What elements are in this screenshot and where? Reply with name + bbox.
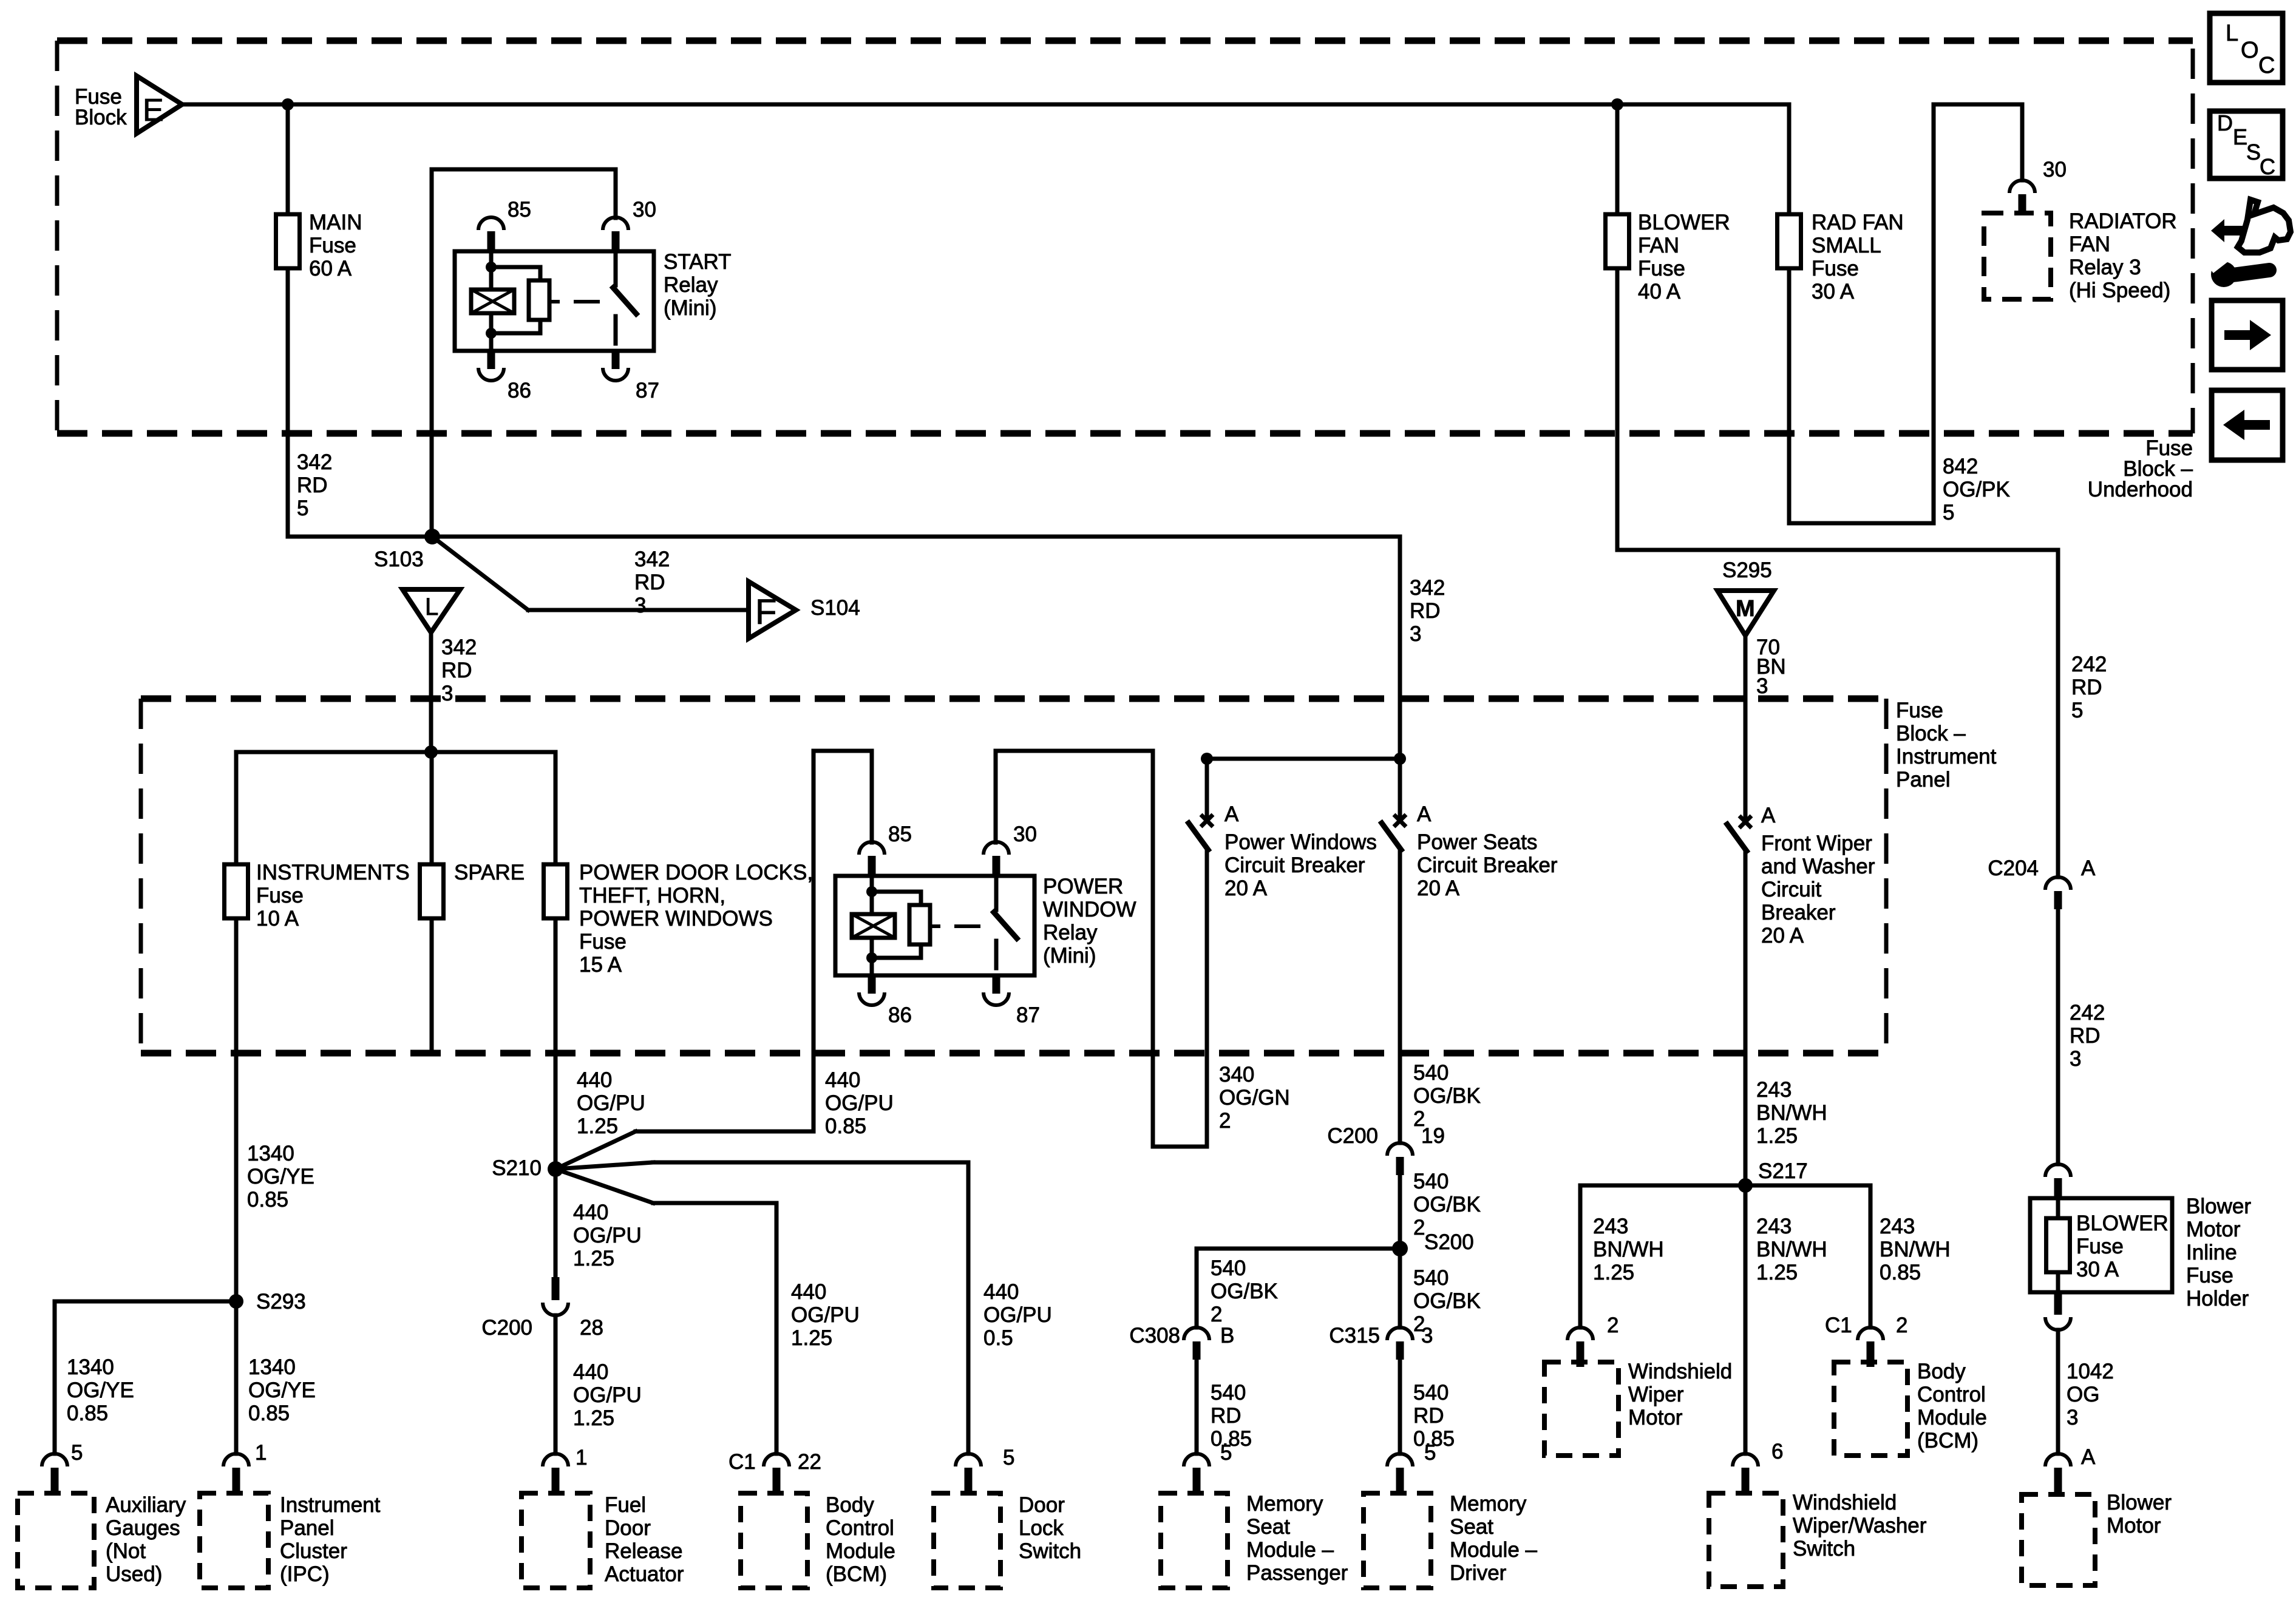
wire relay2 pin30 jog to breaker loop — [994, 751, 998, 842]
svg-text:85: 85 — [508, 198, 531, 222]
svg-text:5: 5 — [1220, 1441, 1232, 1465]
svg-text:60 A: 60 A — [309, 257, 352, 280]
svg-text:5: 5 — [71, 1441, 83, 1465]
svg-text:0.85: 0.85 — [1880, 1261, 1921, 1284]
svg-text:Breaker: Breaker — [1761, 901, 1836, 924]
svg-text:BLOWER: BLOWER — [2076, 1212, 2169, 1235]
wire S217 left drop — [1578, 1185, 1583, 1327]
node main fuse tap — [282, 98, 294, 110]
svg-text:Fuse: Fuse — [2186, 1264, 2233, 1287]
svg-text:(Not: (Not — [106, 1539, 146, 1563]
svg-text:Circuit Breaker: Circuit Breaker — [1224, 853, 1365, 877]
svg-text:342: 342 — [1410, 576, 1445, 600]
svg-text:5: 5 — [1424, 1441, 1436, 1465]
svg-text:2: 2 — [1211, 1303, 1222, 1326]
svg-text:3: 3 — [634, 594, 646, 617]
svg-text:0.85: 0.85 — [247, 1188, 288, 1212]
fuse MAIN 60A — [276, 214, 300, 268]
svg-text:OG/BK: OG/BK — [1413, 1289, 1481, 1313]
svg-text:POWER WINDOWS: POWER WINDOWS — [579, 907, 773, 931]
svg-text:S210: S210 — [492, 1156, 542, 1180]
svg-text:O: O — [2241, 38, 2259, 63]
component Body Control Module BCM — [741, 1493, 807, 1588]
component Fuel Door Release Actuator — [521, 1493, 590, 1588]
svg-text:Power Windows: Power Windows — [1224, 830, 1377, 854]
svg-text:Fuse: Fuse — [579, 930, 627, 954]
svg-text:BLOWER: BLOWER — [1638, 211, 1730, 234]
svg-text:Underhood: Underhood — [2088, 478, 2193, 501]
component Windshield Wiper/Washer Switch — [1709, 1493, 1783, 1587]
icon hand wrench — [2211, 219, 2263, 242]
svg-text:0.5: 0.5 — [983, 1326, 1013, 1350]
svg-text:87: 87 — [1016, 1003, 1040, 1027]
svg-text:342: 342 — [297, 450, 332, 474]
connector blower holder top — [2045, 1164, 2071, 1177]
svg-text:30: 30 — [1013, 822, 1037, 846]
wire S200 left branch — [1197, 1247, 1400, 1251]
svg-text:2: 2 — [1219, 1109, 1231, 1133]
svg-text:Panel: Panel — [280, 1516, 335, 1540]
wire S293 to IPC — [234, 1301, 239, 1454]
svg-text:Module –: Module – — [1246, 1538, 1334, 1562]
svg-text:0.85: 0.85 — [67, 1402, 108, 1425]
off-page connector M triangle — [1717, 591, 1774, 636]
wire relay2 pin85 feed — [812, 751, 816, 1131]
svg-text:Blower: Blower — [2107, 1491, 2172, 1514]
svg-text:3: 3 — [1410, 622, 1421, 646]
node breaker feed split — [1394, 753, 1406, 765]
node blower fan fuse tap — [1611, 98, 1623, 110]
svg-text:20 A: 20 A — [1417, 876, 1460, 900]
svg-text:0.85: 0.85 — [248, 1402, 290, 1425]
fuse BLOWER 30A — [2046, 1218, 2070, 1272]
svg-text:OG/PU: OG/PU — [573, 1224, 642, 1247]
svg-text:INSTRUMENTS: INSTRUMENTS — [256, 861, 410, 884]
svg-text:30 A: 30 A — [1812, 280, 1855, 303]
wire 342 RD 5 down — [286, 268, 290, 537]
svg-text:Actuator: Actuator — [605, 1562, 684, 1586]
svg-text:L: L — [425, 594, 438, 620]
wire S103 to right rail — [432, 535, 1400, 539]
svg-text:Lock: Lock — [1019, 1516, 1064, 1540]
svg-text:Block: Block — [75, 106, 127, 129]
svg-text:OG/PU: OG/PU — [573, 1383, 642, 1407]
svg-text:243: 243 — [1756, 1078, 1792, 1102]
svg-text:19: 19 — [1421, 1124, 1445, 1148]
node S210 — [548, 1161, 563, 1177]
svg-text:440: 440 — [791, 1280, 826, 1304]
wire blower feed — [1615, 268, 1620, 550]
connector blower holder bottom — [2054, 1292, 2062, 1315]
circuit breaker Front Wiper and Washer — [1739, 816, 1751, 828]
svg-text:OG/BK: OG/BK — [1211, 1280, 1278, 1303]
fuse block underhood dashed box — [57, 38, 2193, 44]
svg-text:440: 440 — [577, 1068, 612, 1092]
svg-text:MAIN: MAIN — [309, 211, 362, 234]
svg-text:5: 5 — [1943, 501, 1954, 524]
off-page connector L triangle — [402, 589, 460, 632]
svg-text:85: 85 — [888, 822, 912, 846]
wire power seats breaker out — [1398, 850, 1402, 1143]
wire spare fuse down — [430, 918, 434, 1053]
svg-text:28: 28 — [580, 1316, 603, 1340]
svg-text:440: 440 — [983, 1280, 1019, 1304]
svg-text:3: 3 — [1756, 674, 1768, 698]
svg-text:15 A: 15 A — [579, 953, 622, 977]
svg-text:20 A: 20 A — [1224, 876, 1268, 900]
svg-text:86: 86 — [888, 1003, 912, 1027]
svg-text:C: C — [2260, 154, 2275, 179]
off-page connector F triangle S104 — [749, 581, 796, 639]
node S217 — [1738, 1178, 1753, 1193]
svg-text:POWER: POWER — [1043, 875, 1123, 898]
svg-text:(Hi Speed): (Hi Speed) — [2069, 279, 2170, 302]
svg-text:A: A — [2081, 1445, 2096, 1469]
svg-text:S217: S217 — [1758, 1159, 1808, 1183]
icon DESC box — [2210, 111, 2283, 178]
svg-text:C308: C308 — [1129, 1324, 1180, 1347]
svg-text:243: 243 — [1880, 1215, 1915, 1238]
svg-text:Control: Control — [826, 1516, 894, 1540]
svg-text:D: D — [2217, 110, 2233, 135]
svg-text:30 A: 30 A — [2076, 1258, 2119, 1281]
wire 842 OG/PK u-turn — [1787, 268, 1792, 523]
svg-text:RAD FAN: RAD FAN — [1812, 211, 1904, 234]
svg-text:OG: OG — [2067, 1383, 2099, 1406]
off-page connector E triangle — [137, 76, 182, 134]
svg-text:Block –: Block – — [1896, 722, 1966, 745]
svg-text:540: 540 — [1413, 1266, 1449, 1290]
svg-text:Memory: Memory — [1246, 1492, 1323, 1516]
component Body Control Module BCM right — [1834, 1362, 1907, 1456]
svg-text:RD: RD — [1410, 599, 1441, 623]
svg-text:C1: C1 — [1825, 1314, 1852, 1337]
wire S217 rail — [1580, 1184, 1870, 1188]
svg-text:THEFT, HORN,: THEFT, HORN, — [579, 884, 725, 907]
component Memory Seat Module Passenger — [1161, 1493, 1228, 1588]
svg-text:E: E — [143, 93, 164, 128]
svg-text:Fuse: Fuse — [1896, 699, 1943, 722]
svg-text:C315: C315 — [1329, 1324, 1380, 1347]
relay POWER WINDOW (Mini) — [835, 876, 1034, 975]
svg-text:C204: C204 — [1988, 856, 2039, 880]
svg-text:242: 242 — [2070, 1001, 2105, 1025]
svg-text:243: 243 — [1756, 1215, 1792, 1238]
svg-text:Front Wiper: Front Wiper — [1761, 832, 1872, 855]
svg-text:Wiper: Wiper — [1628, 1383, 1684, 1406]
wire S210 branch to bcm22 — [555, 1169, 653, 1203]
svg-text:RD: RD — [2070, 1024, 2101, 1048]
wire C315 to memory seat driver — [1398, 1360, 1402, 1454]
wire S217 middle drop — [1744, 1185, 1748, 1454]
node L rail junction — [424, 745, 438, 759]
svg-text:342: 342 — [441, 636, 477, 659]
svg-text:Fuel: Fuel — [605, 1493, 646, 1517]
svg-text:OG/BK: OG/BK — [1413, 1084, 1481, 1108]
wire 342 RD 3 left vertical — [430, 169, 434, 537]
svg-text:540: 540 — [1413, 1381, 1449, 1405]
svg-text:RD: RD — [1413, 1404, 1444, 1428]
svg-text:A: A — [1761, 804, 1776, 827]
svg-text:Control: Control — [1917, 1383, 1986, 1406]
wire pdl fuse down — [554, 918, 558, 1169]
svg-text:Release: Release — [605, 1539, 682, 1563]
svg-text:30: 30 — [633, 198, 656, 222]
node power windows breaker tap — [1201, 753, 1213, 765]
svg-text:BN/WH: BN/WH — [1593, 1238, 1664, 1261]
svg-text:540: 540 — [1211, 1381, 1246, 1405]
icon arrow right box — [2212, 300, 2283, 370]
svg-text:Inline: Inline — [2186, 1241, 2237, 1264]
svg-text:SPARE: SPARE — [454, 861, 525, 884]
svg-text:Motor: Motor — [1628, 1406, 1683, 1429]
svg-text:1.25: 1.25 — [573, 1406, 614, 1430]
svg-text:10 A: 10 A — [256, 907, 299, 931]
svg-text:Relay: Relay — [664, 273, 718, 297]
wire S293 to aux gauges — [55, 1300, 236, 1304]
svg-text:1.25: 1.25 — [1593, 1261, 1634, 1284]
svg-text:0.85: 0.85 — [825, 1114, 866, 1138]
wire S217 right drop — [1869, 1185, 1873, 1327]
svg-text:2: 2 — [1607, 1314, 1618, 1337]
svg-text:243: 243 — [1593, 1215, 1628, 1238]
wire start relay pin30 jog — [432, 168, 616, 172]
node S200 — [1392, 1241, 1408, 1256]
component Auxiliary Gauges — [18, 1493, 94, 1588]
svg-text:Seat: Seat — [1450, 1515, 1493, 1539]
svg-text:BN/WH: BN/WH — [1880, 1238, 1951, 1261]
svg-text:Motor: Motor — [2107, 1514, 2161, 1537]
svg-text:Used): Used) — [106, 1562, 162, 1586]
wire S103 diagonal to S104 — [432, 537, 528, 610]
component Windshield Wiper Motor — [1544, 1362, 1618, 1456]
svg-text:842: 842 — [1943, 455, 1978, 478]
component RADIATOR FAN Relay 3 dashed box — [1984, 213, 2051, 299]
svg-text:Relay 3: Relay 3 — [2069, 256, 2141, 279]
svg-text:540: 540 — [1413, 1170, 1449, 1193]
svg-text:RD: RD — [441, 659, 472, 682]
svg-text:S104: S104 — [810, 596, 860, 620]
svg-text:Gauges: Gauges — [106, 1516, 180, 1540]
svg-text:POWER DOOR LOCKS,: POWER DOOR LOCKS, — [579, 861, 813, 884]
component Blower Motor Inline Fuse Holder box — [2030, 1198, 2172, 1292]
svg-text:C1: C1 — [729, 1450, 756, 1474]
wire split to power windows breaker — [1207, 757, 1400, 761]
svg-text:RD: RD — [2071, 676, 2102, 699]
svg-text:3: 3 — [2070, 1047, 2081, 1071]
node S293 — [229, 1294, 243, 1309]
svg-text:S200: S200 — [1424, 1230, 1474, 1254]
svg-text:A: A — [1417, 802, 1432, 826]
svg-text:3: 3 — [2067, 1406, 2078, 1429]
svg-text:E: E — [2233, 124, 2247, 149]
svg-text:Door: Door — [1019, 1493, 1065, 1517]
svg-text:Passenger: Passenger — [1246, 1561, 1348, 1585]
icon arrow left box — [2212, 390, 2283, 460]
wire S210 down to C200-28 — [554, 1169, 558, 1278]
svg-text:340: 340 — [1219, 1063, 1254, 1086]
svg-text:Windshield: Windshield — [1793, 1491, 1897, 1514]
svg-text:Fuse: Fuse — [1638, 257, 1685, 280]
svg-text:B: B — [1220, 1324, 1234, 1347]
svg-text:OG/YE: OG/YE — [248, 1378, 316, 1402]
wire blower fan fuse top — [1615, 104, 1620, 214]
wire M to breaker — [1744, 636, 1748, 819]
svg-text:440: 440 — [573, 1201, 608, 1224]
relay START (Mini) — [455, 251, 654, 351]
svg-text:RADIATOR: RADIATOR — [2069, 209, 2177, 233]
svg-text:BN/WH: BN/WH — [1756, 1101, 1827, 1125]
svg-text:WINDOW: WINDOW — [1043, 898, 1136, 921]
svg-text:Relay: Relay — [1043, 921, 1098, 944]
svg-text:FAN: FAN — [2069, 232, 2110, 256]
wire C204 to fuse holder — [2056, 909, 2060, 1164]
svg-text:Seat: Seat — [1246, 1515, 1290, 1539]
svg-text:440: 440 — [573, 1360, 608, 1384]
svg-text:(Mini): (Mini) — [664, 296, 716, 320]
svg-text:OG/PK: OG/PK — [1943, 478, 2010, 501]
svg-text:Motor: Motor — [2186, 1218, 2241, 1241]
svg-text:S293: S293 — [256, 1290, 306, 1314]
svg-text:1.25: 1.25 — [791, 1326, 832, 1350]
svg-text:Holder: Holder — [2186, 1287, 2249, 1310]
svg-text:RD: RD — [297, 473, 328, 497]
svg-text:SMALL: SMALL — [1812, 234, 1881, 257]
svg-text:OG/PU: OG/PU — [983, 1303, 1052, 1327]
svg-text:A: A — [2081, 856, 2096, 880]
svg-text:3: 3 — [1421, 1324, 1433, 1347]
svg-text:Body: Body — [1917, 1360, 1966, 1383]
svg-text:1.25: 1.25 — [1756, 1124, 1798, 1148]
svg-text:86: 86 — [508, 379, 531, 402]
svg-text:1.25: 1.25 — [573, 1247, 614, 1270]
svg-text:5: 5 — [2071, 699, 2083, 722]
circuit breaker Power Windows — [1201, 815, 1213, 827]
svg-text:1.25: 1.25 — [577, 1114, 618, 1138]
fuse RAD FAN SMALL 30A — [1778, 214, 1801, 268]
svg-text:Cluster: Cluster — [280, 1539, 347, 1563]
svg-text:Wiper/Washer: Wiper/Washer — [1793, 1514, 1927, 1537]
svg-text:OG/PU: OG/PU — [791, 1303, 860, 1327]
svg-text:Instrument: Instrument — [280, 1493, 381, 1517]
svg-text:Panel: Panel — [1896, 768, 1951, 792]
svg-text:Driver: Driver — [1450, 1561, 1507, 1585]
wire C200-28 to fuel door — [554, 1315, 558, 1454]
svg-text:Power Seats: Power Seats — [1417, 830, 1537, 854]
svg-text:1340: 1340 — [247, 1142, 294, 1165]
svg-text:3: 3 — [441, 682, 453, 705]
svg-text:OG/YE: OG/YE — [67, 1378, 134, 1402]
svg-text:Auxiliary: Auxiliary — [106, 1493, 186, 1517]
svg-text:(IPC): (IPC) — [280, 1562, 330, 1586]
component Instrument Panel Cluster — [200, 1493, 268, 1588]
svg-text:Windshield: Windshield — [1628, 1360, 1732, 1383]
svg-text:Circuit: Circuit — [1761, 878, 1821, 901]
wire breaker to S217 — [1744, 851, 1748, 1185]
svg-text:Door: Door — [605, 1516, 651, 1540]
svg-text:C: C — [2258, 53, 2275, 78]
svg-text:Fuse: Fuse — [309, 234, 356, 257]
svg-text:BN/WH: BN/WH — [1756, 1238, 1827, 1261]
wire 342 RD 3 breaker feed — [1398, 537, 1402, 818]
svg-text:(BCM): (BCM) — [1917, 1429, 1978, 1453]
svg-text:and Washer: and Washer — [1761, 855, 1875, 878]
svg-text:(Mini): (Mini) — [1043, 944, 1096, 968]
component Door Lock Switch — [934, 1493, 1000, 1588]
svg-text:1.25: 1.25 — [1756, 1261, 1798, 1284]
fuse POWER DOOR LOCKS 15A — [544, 864, 568, 918]
svg-text:Switch: Switch — [1793, 1537, 1855, 1561]
svg-text:C200: C200 — [1327, 1124, 1378, 1148]
svg-text:OG/BK: OG/BK — [1413, 1193, 1481, 1216]
svg-text:1: 1 — [576, 1446, 587, 1470]
wire L down to fuse block — [429, 631, 433, 752]
svg-text:OG/PU: OG/PU — [825, 1091, 894, 1115]
svg-text:OG/PU: OG/PU — [577, 1091, 645, 1115]
fuse SPARE — [420, 864, 444, 918]
svg-text:F: F — [755, 592, 776, 632]
svg-text:242: 242 — [2071, 653, 2107, 676]
svg-text:Memory: Memory — [1450, 1492, 1527, 1516]
wire holder to blower motor — [2056, 1330, 2060, 1454]
svg-text:Blower: Blower — [2186, 1195, 2251, 1218]
svg-text:Fuse: Fuse — [2076, 1235, 2124, 1258]
svg-text:C200: C200 — [481, 1316, 532, 1340]
svg-text:22: 22 — [798, 1450, 821, 1474]
svg-text:40 A: 40 A — [1638, 280, 1681, 303]
svg-text:540: 540 — [1211, 1256, 1246, 1280]
fuse block instrument panel dashed box — [141, 696, 1886, 702]
node S103 — [424, 529, 440, 544]
svg-text:342: 342 — [634, 547, 670, 571]
svg-text:1340: 1340 — [248, 1355, 296, 1379]
svg-text:Circuit Breaker: Circuit Breaker — [1417, 853, 1558, 877]
component Blower Motor — [2022, 1494, 2095, 1585]
svg-text:S103: S103 — [374, 547, 424, 571]
svg-text:RD: RD — [634, 571, 665, 594]
wire main fuse top — [286, 104, 290, 214]
svg-text:30: 30 — [2043, 158, 2067, 181]
svg-text:L: L — [2226, 21, 2238, 46]
svg-text:Module: Module — [1917, 1406, 1987, 1429]
svg-text:Instrument: Instrument — [1896, 745, 1997, 768]
svg-text:5: 5 — [297, 497, 308, 520]
svg-text:Module: Module — [826, 1539, 895, 1563]
svg-text:OG/YE: OG/YE — [247, 1165, 314, 1188]
svg-text:START: START — [664, 250, 732, 274]
svg-text:1042: 1042 — [2067, 1360, 2114, 1383]
svg-text:2: 2 — [1896, 1314, 1907, 1337]
svg-text:5: 5 — [1003, 1446, 1014, 1470]
wire S210 branch to relay2 pin85 — [555, 1131, 636, 1169]
svg-text:S295: S295 — [1722, 558, 1772, 582]
svg-text:540: 540 — [1413, 1061, 1449, 1085]
main bus wire from E — [182, 103, 1789, 107]
svg-text:A: A — [1224, 802, 1239, 826]
wire C308 to memory seat passenger — [1195, 1360, 1199, 1454]
fuse INSTRUMENTS 10A — [225, 864, 248, 918]
svg-text:OG/GN: OG/GN — [1219, 1086, 1290, 1110]
circuit breaker Power Seats — [1394, 815, 1406, 827]
svg-text:6: 6 — [1771, 1440, 1783, 1463]
svg-text:Fuse: Fuse — [1812, 257, 1859, 280]
svg-text:1: 1 — [255, 1441, 267, 1465]
svg-text:Module –: Module – — [1450, 1538, 1538, 1562]
wire S200 to C315 — [1398, 1249, 1402, 1327]
svg-text:440: 440 — [825, 1068, 860, 1092]
wire C200-19 to S200 — [1398, 1175, 1402, 1249]
svg-text:20 A: 20 A — [1761, 924, 1804, 947]
